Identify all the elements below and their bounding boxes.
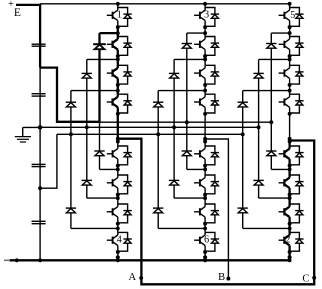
svg-text:E: E xyxy=(14,7,21,19)
svg-text:3: 3 xyxy=(204,10,209,21)
svg-text:1: 1 xyxy=(117,10,122,21)
svg-text:5: 5 xyxy=(290,10,295,21)
svg-text:6: 6 xyxy=(204,235,209,246)
svg-text:4: 4 xyxy=(117,235,122,246)
svg-text:2: 2 xyxy=(285,235,290,246)
svg-text:A: A xyxy=(129,272,137,283)
svg-text:C: C xyxy=(302,274,309,285)
svg-text:B: B xyxy=(218,272,225,283)
